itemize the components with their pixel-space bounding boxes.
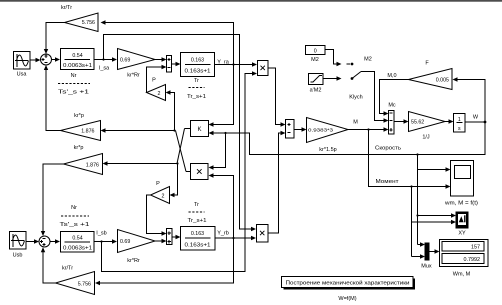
gain kr*1.5p = 0.9383*3 xyxy=(307,118,349,154)
wire switch to speed sum (Mc) xyxy=(361,72,389,123)
svg-text:0.54: 0.54 xyxy=(72,236,82,242)
annotation box (Postroenie mekhanicheskoi kharakteristiki) xyxy=(282,277,416,290)
svg-text:0.7992: 0.7992 xyxy=(464,257,481,263)
svg-text:kr*p: kr*p xyxy=(74,145,84,151)
wire torque sum to gain kr*1.5p xyxy=(294,127,307,131)
wire Y_rb branch up to product X2 xyxy=(209,173,235,239)
svg-text:1.876: 1.876 xyxy=(86,162,99,168)
sum junction A (circle) xyxy=(41,54,52,65)
product block X2 (flipped) xyxy=(191,164,209,180)
wire Y_rb to product X4 xyxy=(215,236,256,240)
label Nr/Ts_s+1 above TF B xyxy=(60,205,90,228)
label Skorost (speed) xyxy=(375,146,401,152)
node I_sb label xyxy=(96,231,106,237)
svg-text:s: s xyxy=(458,126,461,132)
svg-text:I_sb: I_sb xyxy=(96,231,106,237)
gain F = 0.005 (flipped) xyxy=(409,61,453,90)
svg-text:Nr: Nr xyxy=(71,73,77,79)
wire gain P(A) to sum A2 xyxy=(147,65,167,93)
transfer function block 0.163/(0.163s+1) (A) xyxy=(181,53,215,77)
wire gain 0.69 A to sum3 xyxy=(155,57,167,61)
svg-text:XY: XY xyxy=(458,231,466,237)
svg-text:2: 2 xyxy=(162,193,165,199)
svg-text:Скорость: Скорость xyxy=(375,146,401,152)
label Nr/Ts_s+1 under TF A xyxy=(58,73,90,96)
svg-text:Mux: Mux xyxy=(421,264,432,270)
wire a'M2 to switch xyxy=(323,76,342,80)
product block K (flipped) xyxy=(191,121,209,137)
svg-text:0.69: 0.69 xyxy=(120,58,130,64)
svg-text:a'M2: a'M2 xyxy=(310,88,322,94)
svg-text:0.54: 0.54 xyxy=(72,53,82,59)
gain P = 2 (A, flipped) xyxy=(147,78,166,101)
wire M to speed sum xyxy=(348,127,389,131)
wire X3 output to torque sum xyxy=(268,68,286,127)
wire w stub to product X2 xyxy=(209,132,227,170)
gain kr*p = 1.876 (B, flipped) xyxy=(64,145,103,175)
source Usa (sine wave) xyxy=(14,52,31,78)
svg-text:Момент: Момент xyxy=(376,179,400,185)
svg-text:Ts'_s +1: Ts'_s +1 xyxy=(60,222,90,228)
svg-text:kr*Rr: kr*Rr xyxy=(127,72,140,78)
svg-text:Ts'_s +1: Ts'_s +1 xyxy=(58,89,89,95)
node Y_ra label xyxy=(217,60,230,66)
svg-text:kr*Rr: kr*Rr xyxy=(127,258,140,264)
display block Wm,M (157 / 0.7992) xyxy=(440,240,489,278)
gain 1/J = 55.62 xyxy=(409,112,446,141)
constant block 0 (M2) xyxy=(306,46,326,64)
wire gain kr*p A to sum A bottom xyxy=(44,65,61,131)
svg-text:M2: M2 xyxy=(311,57,319,63)
svg-text:1.876: 1.876 xyxy=(81,129,94,135)
sum block A2 (rect, + -) xyxy=(167,56,172,73)
wire K output to gain kr*p (B) with crossing diagonal xyxy=(103,129,191,166)
transfer function block 0.54/(0.0063s+1) (B) xyxy=(61,232,95,253)
svg-text:0.0063s+1: 0.0063s+1 xyxy=(63,246,92,252)
svg-text:0.0063s+1: 0.0063s+1 xyxy=(63,63,92,69)
svg-text:Tr: Tr xyxy=(194,78,199,84)
label Tr/Tr_s+1 above TF B xyxy=(188,202,207,224)
svg-text:0.69: 0.69 xyxy=(120,239,130,245)
integrator block 1/s xyxy=(454,114,466,133)
annotation W=f(M) xyxy=(338,296,356,302)
svg-text:2: 2 xyxy=(158,91,161,97)
svg-text:Wm, M: Wm, M xyxy=(453,272,471,278)
wire I_sa branch to product X4 xyxy=(102,35,256,232)
wire W output to junction xyxy=(466,121,487,124)
wire gain F to speed sum xyxy=(380,80,409,116)
wire M branch down to scope input 2 xyxy=(367,128,450,188)
gain kr*p = 1.876 (A, flipped) xyxy=(61,113,101,141)
wire W distribution line xyxy=(209,122,486,155)
svg-text:M: M xyxy=(353,120,358,126)
gain kr/Tr = 5.756 (B) xyxy=(56,266,95,295)
svg-text:Usb: Usb xyxy=(13,253,23,259)
wire sum A2 to TF Tr (A) xyxy=(172,62,181,66)
wire sum B to TF Nr/Ts_s+1 (B) xyxy=(50,239,60,243)
source Usb (sine wave) xyxy=(10,232,27,259)
svg-text:K: K xyxy=(197,127,201,133)
sum junction B (circle) xyxy=(39,236,50,247)
sum block B2 (rect, + +) xyxy=(167,229,173,245)
transfer function block 0.54/(0.0063s+1) (A) xyxy=(61,49,95,70)
wire W branch down to scope/XY/Mux xyxy=(416,153,456,246)
node I_sa label xyxy=(99,66,110,72)
svg-text:Klych: Klych xyxy=(349,95,362,101)
torque sum block (+ -) xyxy=(286,120,295,139)
block a'M2 (ramp) xyxy=(309,74,324,94)
svg-text:1/J: 1/J xyxy=(422,134,430,140)
wire M branch to Mux input 2 xyxy=(412,254,426,258)
node W label xyxy=(473,115,479,121)
transfer function block 0.163/(0.163s+1) (B) xyxy=(181,227,216,251)
svg-text:5.756: 5.756 xyxy=(82,20,95,26)
wire Y_ra to product X3 xyxy=(215,62,258,66)
wire I_sb to gain kr*Rr (B) xyxy=(94,239,117,243)
svg-text:0.163: 0.163 xyxy=(191,58,204,64)
manual switch Klych xyxy=(349,63,362,101)
node M,0 label xyxy=(387,73,396,79)
wire W feedback up to gain F xyxy=(453,77,486,122)
gain kr*Rr = 0.69 (B) xyxy=(118,230,156,265)
window top edge xyxy=(0,0,502,2)
svg-text:Usa: Usa xyxy=(17,72,28,78)
svg-text:I_sa: I_sa xyxy=(99,66,110,72)
svg-text:Nr: Nr xyxy=(71,205,77,211)
wire X2 output to gain kr*p (A) with crossing diagonal xyxy=(101,128,191,171)
svg-text:Tr_s+1: Tr_s+1 xyxy=(188,218,207,224)
svg-text:kr/Tr: kr/Tr xyxy=(62,266,73,272)
mux block xyxy=(421,243,432,270)
wire sum B2 to TF Tr (B) xyxy=(172,235,181,239)
svg-text:0: 0 xyxy=(314,48,317,54)
wire Y_ra branch up to gain kr/Tr (A) xyxy=(101,20,235,65)
wire Y_ra branch down to product K xyxy=(209,65,234,127)
svg-text:W=f(M): W=f(M) xyxy=(338,296,356,302)
svg-text:0.163s+1: 0.163s+1 xyxy=(185,69,211,75)
svg-text:kr*p: kr*p xyxy=(74,113,84,119)
gain kr*Rr = 0.69 (A) xyxy=(118,49,156,79)
XY graph block xyxy=(456,212,468,237)
wire Usb to sum B xyxy=(26,239,39,243)
svg-text:Mc: Mc xyxy=(388,103,396,109)
svg-text:F: F xyxy=(425,61,429,67)
wire I_sb branch to product X3 xyxy=(100,71,257,271)
wire I_sa to gain kr*Rr (A) xyxy=(94,57,117,61)
wire speed sum to gain 1/J xyxy=(395,119,409,123)
node M label xyxy=(353,120,358,126)
wire gain kr*p B to sum B top xyxy=(41,164,64,236)
svg-text:P: P xyxy=(152,78,156,84)
gain P = 2 (B, flipped) xyxy=(151,181,170,204)
wire gain 0.69 B to sum B2 xyxy=(155,239,167,243)
svg-text:P: P xyxy=(156,181,160,187)
svg-text:55.62: 55.62 xyxy=(411,120,424,126)
wire gain kr/Tr A to sum A top xyxy=(44,23,65,55)
wire gain P(B) to sum B2 xyxy=(147,195,167,236)
svg-text:Построение механической характ: Построение механической характеристики xyxy=(286,280,410,287)
label Moment xyxy=(376,179,400,185)
svg-text:0.163s+1: 0.163s+1 xyxy=(185,243,211,249)
svg-text:157: 157 xyxy=(471,245,480,251)
gain kr/Tr = 5.756 (A) xyxy=(61,5,98,32)
svg-text:5.756: 5.756 xyxy=(78,281,91,287)
svg-text:M,0: M,0 xyxy=(387,73,396,79)
wire P(A) input from w*Y_rb line xyxy=(166,90,176,131)
svg-text:Tr_s+1: Tr_s+1 xyxy=(187,94,206,100)
wire X4 output to torque sum xyxy=(268,131,286,233)
wire Y_rb branch down to gain kr/Tr (B) xyxy=(95,238,234,285)
svg-text:0.163: 0.163 xyxy=(191,231,204,237)
node Y_rb label xyxy=(217,231,229,237)
product block X4 xyxy=(257,225,269,243)
svg-text:0.005: 0.005 xyxy=(436,78,449,84)
label Mc xyxy=(388,103,396,109)
wire Usa to sum A xyxy=(30,58,41,62)
svg-text:kr/Tr: kr/Tr xyxy=(61,5,72,11)
svg-text:Y_rb: Y_rb xyxy=(217,231,229,237)
wire gain kr/Tr B to sum B bottom xyxy=(41,247,56,283)
product block X3 xyxy=(258,61,269,76)
svg-text:wm, M = f(t): wm, M = f(t) xyxy=(445,201,478,207)
svg-text:0.9383*3: 0.9383*3 xyxy=(308,128,333,134)
wire gain 1/J to integrator xyxy=(445,119,454,123)
wire junction to P gain (B) xyxy=(170,162,179,197)
scope block wm,M=f(t) xyxy=(445,161,478,207)
svg-text:Tr: Tr xyxy=(194,202,199,208)
wire M branch to XY input 2 xyxy=(410,185,456,256)
wire mux to display xyxy=(429,249,440,253)
label Tr/Tr_s+1 under TF A xyxy=(187,78,206,100)
svg-text:M2: M2 xyxy=(364,57,372,63)
svg-text:W: W xyxy=(473,115,479,121)
speed sum block (- - +) xyxy=(389,111,395,135)
node M2 label (switch output) xyxy=(364,57,372,63)
svg-text:kr*1.5p: kr*1.5p xyxy=(319,147,336,153)
wire constant M2 to switch xyxy=(325,50,350,67)
wire sum A to TF Nr/Ts_s+1 (A) xyxy=(52,57,61,61)
